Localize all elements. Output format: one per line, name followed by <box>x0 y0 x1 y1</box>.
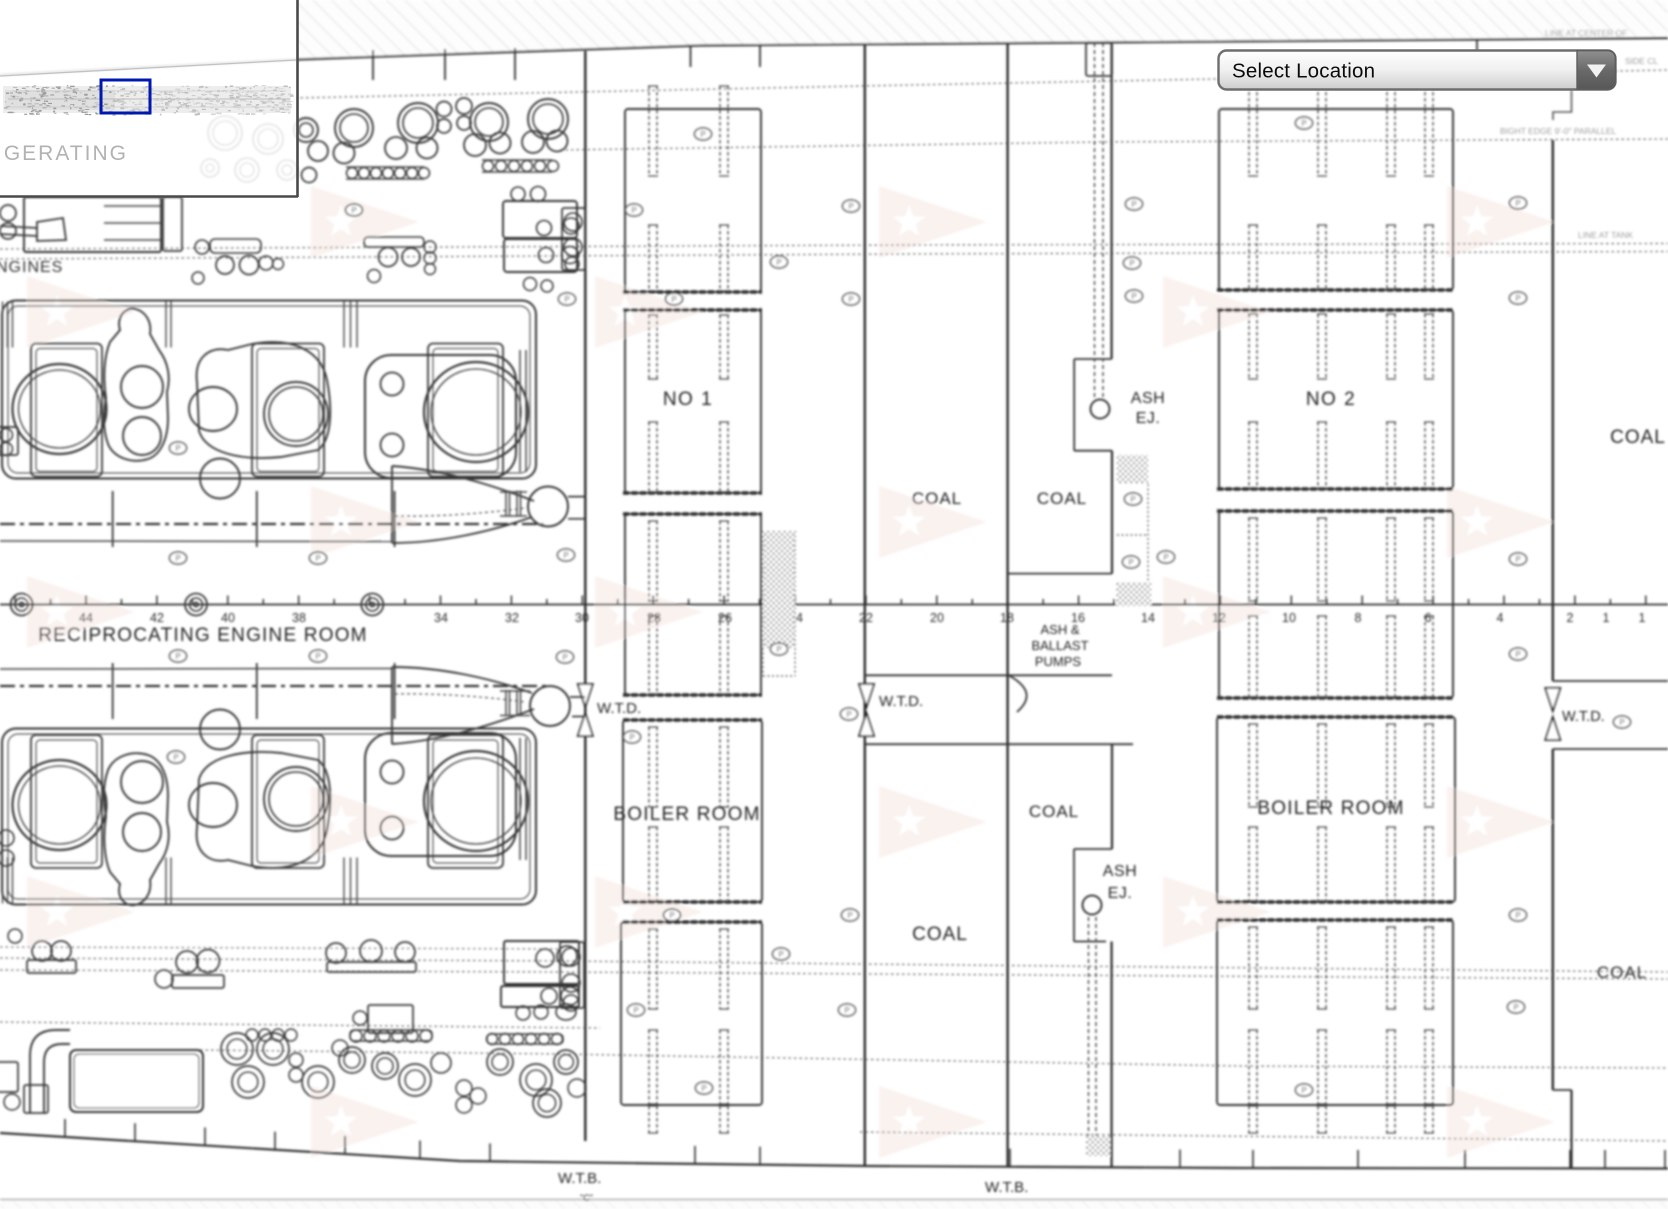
svg-text:P: P <box>563 551 568 560</box>
svg-text:42: 42 <box>150 611 164 625</box>
svg-text:W.T.B.: W.T.B. <box>985 1179 1028 1196</box>
svg-text:EJ.: EJ. <box>1136 410 1161 427</box>
svg-text:1: 1 <box>1603 611 1610 625</box>
svg-text:P: P <box>846 710 851 719</box>
svg-text:NGINES: NGINES <box>0 259 63 276</box>
svg-text:NO 1: NO 1 <box>663 389 713 410</box>
svg-text:P: P <box>1515 911 1520 920</box>
svg-text:P: P <box>1301 119 1306 128</box>
svg-text:LINE AT TANK: LINE AT TANK <box>1578 230 1633 240</box>
svg-text:P: P <box>175 554 180 563</box>
svg-text:Select Location: Select Location <box>1232 60 1375 83</box>
svg-text:P: P <box>1129 259 1134 268</box>
svg-text:P: P <box>1515 199 1520 208</box>
svg-text:P: P <box>351 206 356 215</box>
svg-text:EJ.: EJ. <box>1108 885 1133 902</box>
svg-text:PUMPS: PUMPS <box>1035 654 1082 669</box>
svg-text:P: P <box>315 554 320 563</box>
svg-text:COAL: COAL <box>1597 963 1647 982</box>
svg-text:P: P <box>1131 200 1136 209</box>
svg-text:P: P <box>315 652 320 661</box>
svg-text:P: P <box>1130 495 1135 504</box>
svg-text:COAL: COAL <box>912 924 968 945</box>
svg-text:8: 8 <box>1355 611 1362 625</box>
svg-text:SIDE CL: SIDE CL <box>1625 56 1658 66</box>
svg-text:BALLAST: BALLAST <box>1031 638 1088 653</box>
svg-text:1: 1 <box>1639 611 1646 625</box>
svg-text:W.T.B.: W.T.B. <box>558 1170 601 1187</box>
svg-text:34: 34 <box>434 611 448 625</box>
svg-text:P: P <box>776 645 781 654</box>
svg-text:P: P <box>564 295 569 304</box>
svg-text:LINE AT CENTER OF: LINE AT CENTER OF <box>1545 28 1627 38</box>
svg-text:P: P <box>701 1084 706 1093</box>
svg-text:P: P <box>175 444 180 453</box>
svg-text:38: 38 <box>292 611 306 625</box>
svg-text:P: P <box>1515 555 1520 564</box>
svg-text:P: P <box>1619 718 1624 727</box>
svg-text:COAL: COAL <box>912 489 962 508</box>
svg-text:P: P <box>1515 650 1520 659</box>
svg-text:P: P <box>1515 294 1520 303</box>
svg-text:ASH: ASH <box>1103 863 1137 880</box>
svg-text:P: P <box>844 1006 849 1015</box>
svg-text:W.T.D.: W.T.D. <box>1562 709 1605 725</box>
svg-text:44: 44 <box>79 611 93 625</box>
svg-text:P: P <box>700 130 705 139</box>
svg-text:P: P <box>778 950 783 959</box>
svg-text:IGERATING: IGERATING <box>0 142 128 165</box>
svg-text:4: 4 <box>1497 611 1504 625</box>
svg-text:P: P <box>629 733 634 742</box>
svg-text:P: P <box>848 202 853 211</box>
svg-text:P: P <box>631 206 636 215</box>
svg-text:30: 30 <box>575 611 589 625</box>
svg-text:40: 40 <box>221 611 235 625</box>
svg-text:P: P <box>847 911 852 920</box>
svg-text:32: 32 <box>505 611 519 625</box>
svg-text:COAL: COAL <box>1610 427 1666 448</box>
svg-text:P: P <box>562 653 567 662</box>
svg-text:P: P <box>848 295 853 304</box>
svg-text:P: P <box>1301 1086 1306 1095</box>
svg-text:22: 22 <box>859 611 873 625</box>
svg-text:BOILER ROOM: BOILER ROOM <box>613 804 760 825</box>
svg-text:W.T.D.: W.T.D. <box>597 700 641 717</box>
svg-text:2: 2 <box>1567 611 1574 625</box>
svg-text:BOILER ROOM: BOILER ROOM <box>1257 798 1404 819</box>
svg-text:P: P <box>1163 553 1168 562</box>
svg-text:COAL: COAL <box>1037 489 1087 508</box>
svg-text:ASH: ASH <box>1131 390 1165 407</box>
svg-text:14: 14 <box>1141 611 1155 625</box>
svg-text:P: P <box>669 911 674 920</box>
svg-text:P: P <box>1128 558 1133 567</box>
svg-text:P: P <box>776 258 781 267</box>
svg-text:20: 20 <box>930 611 944 625</box>
svg-text:P: P <box>173 753 178 762</box>
svg-text:W.T.D.: W.T.D. <box>879 693 923 710</box>
svg-text:P: P <box>671 295 676 304</box>
svg-text:"C": "C" <box>580 1193 593 1203</box>
svg-text:ASH &: ASH & <box>1040 622 1079 637</box>
svg-text:P: P <box>1131 292 1136 301</box>
svg-text:P: P <box>175 652 180 661</box>
svg-text:COAL: COAL <box>1029 802 1079 821</box>
svg-text:NO 2: NO 2 <box>1306 389 1356 410</box>
svg-text:10: 10 <box>1282 611 1296 625</box>
svg-text:BIGHT EDGE 9′-0″ PARALLEL: BIGHT EDGE 9′-0″ PARALLEL <box>1500 126 1617 136</box>
svg-text:P: P <box>633 1006 638 1015</box>
svg-text:P: P <box>1513 1003 1518 1012</box>
svg-text:RECIPROCATING ENGINE ROOM: RECIPROCATING ENGINE ROOM <box>38 625 367 646</box>
